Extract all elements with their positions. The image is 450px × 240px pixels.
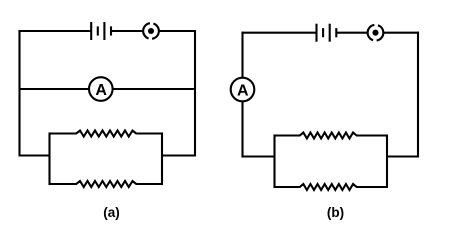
wire: circuit b, left vertical below ammeter xyxy=(241,101,243,157)
wire: circuit a, top wire from left corner to battery xyxy=(18,30,91,32)
plug key (open), circuit a xyxy=(143,23,159,39)
wire: circuit a, middle branch left of ammeter xyxy=(20,88,90,90)
wire: circuit a, junction bar right of parallel resistors xyxy=(161,132,163,185)
resistor R1 (top branch), circuit a xyxy=(50,131,163,137)
wire: circuit b, lead out of parallel combination (right) xyxy=(387,155,418,157)
wire: circuit b, junction bar left of parallel resistors xyxy=(273,134,275,188)
resistor R2 (bottom branch), circuit b xyxy=(275,184,388,190)
wire: circuit a, middle branch right of ammeter xyxy=(113,88,195,90)
svg-text:(a): (a) xyxy=(103,205,120,220)
ammeter, circuit a xyxy=(89,77,113,101)
label (a) xyxy=(103,205,120,220)
wire: circuit a, right vertical xyxy=(194,30,196,157)
wire: circuit b, top wire from left corner to battery xyxy=(241,32,316,34)
wire: circuit a, between battery and plug key xyxy=(111,30,142,32)
wire: circuit b, between battery and plug key xyxy=(336,32,367,34)
wire: circuit a, lead into parallel combination (left) xyxy=(20,154,50,156)
resistor R2 (bottom branch), circuit a xyxy=(50,181,163,187)
svg-text:A: A xyxy=(237,82,249,99)
battery (cell pair), circuit b xyxy=(317,24,337,42)
resistor R1 (top branch), circuit b xyxy=(275,133,388,139)
ammeter, circuit b xyxy=(231,78,255,102)
wire: circuit b, plug key to right corner xyxy=(384,32,419,34)
wire: circuit b, lead into parallel combination (left) xyxy=(243,155,275,157)
wire: circuit a, left vertical xyxy=(18,30,20,157)
label (b) xyxy=(327,205,344,220)
battery (cell pair), circuit a xyxy=(91,22,111,40)
wire: circuit b, left vertical above ammeter xyxy=(241,32,243,78)
wire: circuit b, junction bar right of parallel resistors xyxy=(386,134,388,188)
svg-text:(b): (b) xyxy=(327,205,344,220)
wire: circuit a, junction bar left of parallel resistors xyxy=(48,132,50,185)
wire: circuit b, right vertical xyxy=(417,32,419,158)
plug key (open), circuit b xyxy=(368,25,384,41)
svg-text:A: A xyxy=(95,82,107,99)
wire: circuit a, lead out of parallel combination (right) xyxy=(162,154,195,156)
wire: circuit a, plug key to right corner xyxy=(160,30,196,32)
